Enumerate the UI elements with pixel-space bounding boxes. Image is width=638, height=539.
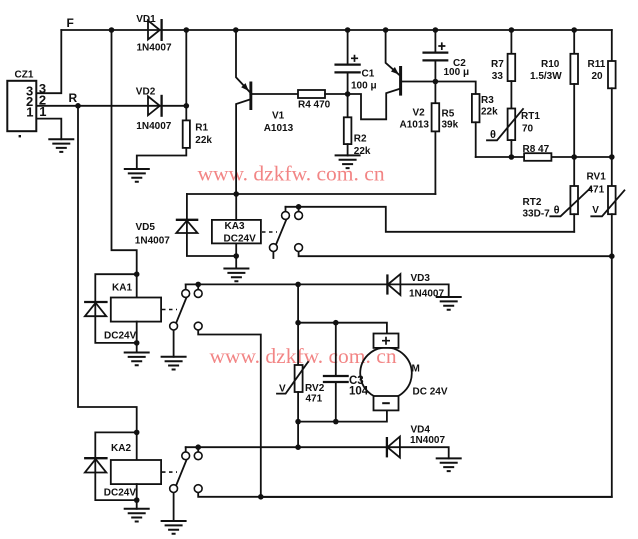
svg-text:DC 24V: DC 24V xyxy=(413,387,448,398)
svg-text:1: 1 xyxy=(39,104,46,119)
svg-text:33D-7: 33D-7 xyxy=(523,209,551,220)
svg-text:θ: θ xyxy=(490,129,496,141)
svg-text:VD2: VD2 xyxy=(136,87,156,98)
svg-text:DC24V: DC24V xyxy=(104,331,137,342)
svg-text:VD3: VD3 xyxy=(411,273,431,284)
svg-text:20: 20 xyxy=(592,71,604,82)
svg-text:KA3: KA3 xyxy=(225,221,245,232)
svg-text:θ: θ xyxy=(554,204,560,216)
svg-text:RV2: RV2 xyxy=(305,383,325,394)
svg-text:104: 104 xyxy=(349,386,369,398)
svg-text:R11: R11 xyxy=(588,59,606,70)
svg-text:471: 471 xyxy=(588,185,605,196)
svg-text:1N4007: 1N4007 xyxy=(410,435,445,446)
svg-text:22k: 22k xyxy=(481,107,498,118)
svg-text:100 μ: 100 μ xyxy=(351,81,377,92)
svg-text:R2: R2 xyxy=(354,134,367,145)
svg-text:C1: C1 xyxy=(362,69,375,80)
svg-text:1N4007: 1N4007 xyxy=(136,121,171,132)
svg-text:R5: R5 xyxy=(442,109,455,120)
svg-text:1N4007: 1N4007 xyxy=(135,236,170,247)
svg-text:70: 70 xyxy=(522,124,534,135)
svg-text:KA2: KA2 xyxy=(111,443,131,454)
svg-text:KA1: KA1 xyxy=(112,283,132,294)
svg-text:RV1: RV1 xyxy=(587,172,607,183)
svg-text:VD1: VD1 xyxy=(136,14,156,25)
svg-text:A1013: A1013 xyxy=(264,123,294,134)
svg-text:DC24V: DC24V xyxy=(224,234,257,245)
svg-text:DC24V: DC24V xyxy=(104,488,137,499)
svg-text:F: F xyxy=(67,16,74,30)
svg-text:1: 1 xyxy=(26,105,33,120)
svg-text:R1: R1 xyxy=(195,123,208,134)
svg-text:V2: V2 xyxy=(413,108,426,119)
svg-text:www. dzkfw. com. cn: www. dzkfw. com. cn xyxy=(198,162,385,186)
svg-text:A1013: A1013 xyxy=(400,120,430,131)
svg-text:M: M xyxy=(412,364,420,375)
svg-text:100 μ: 100 μ xyxy=(444,67,470,78)
svg-text:R8 47: R8 47 xyxy=(523,144,550,155)
svg-text:471: 471 xyxy=(306,394,323,405)
svg-text:R10: R10 xyxy=(541,59,560,70)
svg-text:R3: R3 xyxy=(481,95,494,106)
svg-text:VD5: VD5 xyxy=(136,222,156,233)
svg-text:RT2: RT2 xyxy=(523,197,542,208)
svg-text:1N4007: 1N4007 xyxy=(409,289,444,300)
svg-text:CZ1: CZ1 xyxy=(15,70,34,81)
svg-text:22k: 22k xyxy=(354,146,371,157)
svg-text:R7: R7 xyxy=(491,59,504,70)
svg-text:22k: 22k xyxy=(195,135,212,146)
svg-text:VD4: VD4 xyxy=(411,425,431,436)
svg-text:33: 33 xyxy=(492,71,504,82)
svg-text:R: R xyxy=(69,91,78,105)
svg-text:V: V xyxy=(592,205,599,216)
svg-text:1N4007: 1N4007 xyxy=(137,43,172,54)
svg-text:39k: 39k xyxy=(442,120,459,131)
svg-text:V: V xyxy=(279,384,286,395)
svg-text:R4 470: R4 470 xyxy=(298,100,331,111)
svg-text:1.5/3W: 1.5/3W xyxy=(530,71,562,82)
svg-text:V1: V1 xyxy=(272,111,285,122)
svg-text:RT1: RT1 xyxy=(521,111,540,122)
